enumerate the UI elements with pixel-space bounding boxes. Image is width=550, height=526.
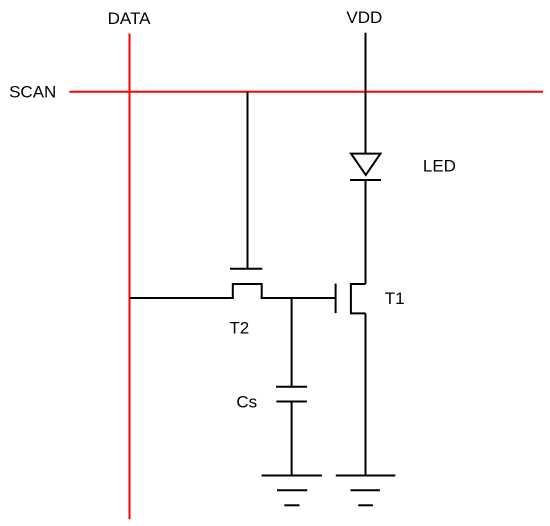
svg-text:Cs: Cs xyxy=(236,392,257,411)
svg-text:T2: T2 xyxy=(229,319,249,338)
svg-text:DATA: DATA xyxy=(108,9,151,28)
svg-text:SCAN: SCAN xyxy=(9,83,56,102)
svg-text:LED: LED xyxy=(423,157,456,176)
svg-text:T1: T1 xyxy=(385,289,405,308)
svg-text:VDD: VDD xyxy=(346,8,382,27)
